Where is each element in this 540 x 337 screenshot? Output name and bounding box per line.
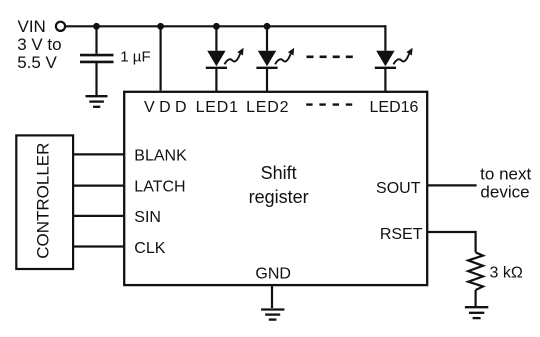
wire top supply rail	[65, 25, 385, 27]
wire CLK	[73, 245, 125, 247]
ground GND pin	[261, 310, 284, 320]
svg-text:1 µF: 1 µF	[120, 48, 150, 65]
ground resistor	[465, 307, 488, 318]
svg-text:5.5 V: 5.5 V	[17, 53, 57, 72]
svg-text:VDD: VDD	[144, 99, 191, 116]
label VIN 3 V to 5.5 V	[17, 17, 61, 72]
junction dot LED1 node	[213, 23, 220, 30]
dashes continuation LEDs	[307, 55, 354, 58]
wire GND pin	[271, 285, 273, 308]
svg-text:GND: GND	[255, 265, 291, 282]
svg-text:3 V to: 3 V to	[17, 35, 61, 54]
svg-text:LED16: LED16	[370, 99, 419, 116]
svg-text:device: device	[480, 182, 529, 201]
svg-text:CLK: CLK	[134, 240, 165, 257]
junction dot LED2 node	[264, 23, 271, 30]
LED D16	[375, 25, 413, 91]
svg-text:Shift: Shift	[261, 163, 297, 183]
svg-text:register: register	[249, 187, 309, 207]
svg-text:LED1: LED1	[196, 99, 239, 116]
dashes pin row	[306, 103, 352, 105]
svg-text:BLANK: BLANK	[134, 147, 187, 164]
wire capacitor to rail	[95, 26, 97, 54]
svg-text:SIN: SIN	[134, 209, 161, 226]
svg-text:RSET: RSET	[380, 226, 423, 243]
ground capacitor	[86, 96, 108, 107]
wire LATCH	[73, 185, 125, 187]
wire resistor to ground	[475, 290, 477, 306]
node VIN terminal	[56, 22, 65, 31]
junction dot VDD node	[157, 23, 164, 30]
svg-text:SOUT: SOUT	[376, 180, 421, 197]
LED D1	[206, 26, 244, 91]
svg-text:3 kΩ: 3 kΩ	[490, 265, 523, 282]
wire capacitor to ground	[95, 63, 97, 95]
wire RSET to resistor	[428, 232, 476, 252]
svg-text:CONTROLLER: CONTROLLER	[34, 143, 53, 259]
wire SOUT output	[428, 184, 477, 186]
svg-text:LED2: LED2	[246, 99, 289, 116]
wire SIN	[73, 215, 125, 217]
wire VDD to rail	[160, 26, 162, 90]
controller box	[16, 135, 73, 269]
junction dot capacitor node	[93, 23, 100, 30]
capacitor C1	[80, 55, 114, 62]
svg-text:to next: to next	[480, 165, 531, 184]
svg-text:VIN: VIN	[18, 17, 46, 36]
resistor R1 3k	[468, 252, 483, 290]
svg-text:LATCH: LATCH	[134, 179, 185, 196]
wire BLANK	[73, 153, 125, 155]
LED D2	[256, 26, 294, 91]
shift register U1 box	[124, 92, 427, 285]
